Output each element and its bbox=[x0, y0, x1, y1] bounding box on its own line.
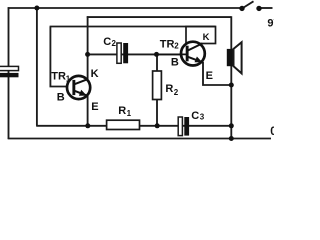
svg-text:B: B bbox=[57, 92, 65, 104]
wire TR1 collector/emitter vertical bbox=[87, 16, 89, 126]
capacitor C2 bbox=[103, 36, 128, 63]
resistor R1 bbox=[107, 105, 140, 129]
wire TR2 emitter path bbox=[203, 62, 231, 85]
svg-text:2: 2 bbox=[112, 39, 117, 48]
svg-text:TR: TR bbox=[51, 71, 66, 83]
junction dot C3 right bbox=[229, 123, 234, 128]
svg-text:2: 2 bbox=[174, 88, 179, 97]
wire C2 row bbox=[88, 53, 184, 55]
svg-text:1: 1 bbox=[66, 74, 71, 83]
junction dot C2 input bbox=[85, 52, 90, 57]
wire inner bottom (emitter / R1 / C3 row) bbox=[36, 125, 231, 127]
svg-text:C: C bbox=[191, 110, 199, 122]
wire switch output to 9V bbox=[259, 7, 273, 9]
svg-text:3: 3 bbox=[200, 113, 205, 122]
svg-text:1: 1 bbox=[127, 109, 132, 118]
svg-text:C: C bbox=[103, 36, 111, 48]
wire bottom rail bbox=[8, 138, 271, 140]
wire TR1 collector top rail bbox=[87, 16, 232, 18]
transistor TR1 bbox=[51, 68, 98, 113]
resistor R2 bbox=[153, 71, 179, 100]
speaker bbox=[227, 42, 242, 73]
junction dot TR1 emitter bbox=[85, 123, 90, 128]
wire TR1 base branch bbox=[50, 27, 70, 87]
switch S1 bbox=[239, 1, 261, 11]
wire left rail bbox=[8, 7, 10, 139]
svg-text:K: K bbox=[91, 68, 99, 80]
capacitor C3 bbox=[178, 110, 205, 135]
junction dot R2 bottom bbox=[155, 123, 160, 128]
svg-text:K: K bbox=[203, 32, 210, 43]
wire top rail bbox=[8, 7, 242, 9]
junction dot top-left bbox=[34, 6, 39, 11]
svg-text:R: R bbox=[165, 83, 173, 95]
capacitor C1 bbox=[0, 66, 19, 77]
wire speaker vertical bbox=[230, 16, 232, 138]
transistor TR2 bbox=[157, 32, 213, 82]
wire vertical from top junction to R1 row bbox=[36, 8, 38, 126]
svg-text:E: E bbox=[91, 101, 98, 113]
K label box at TR2 collector bbox=[186, 27, 216, 44]
svg-text:2: 2 bbox=[174, 42, 179, 51]
junction dot C2 output / R2 top bbox=[154, 52, 159, 57]
svg-text:B: B bbox=[171, 57, 179, 69]
junction dot TR2 emitter / speaker bbox=[229, 83, 234, 88]
wire feedback rail TR2 collector to TR1 base bbox=[50, 26, 216, 28]
junction dot bottom rail bbox=[229, 136, 234, 141]
svg-text:R: R bbox=[118, 105, 126, 117]
wire R2 vertical bbox=[156, 54, 158, 125]
svg-text:0V: 0V bbox=[270, 126, 274, 138]
svg-text:9V: 9V bbox=[267, 18, 274, 30]
svg-text:TR: TR bbox=[160, 38, 175, 50]
svg-text:E: E bbox=[206, 70, 213, 82]
